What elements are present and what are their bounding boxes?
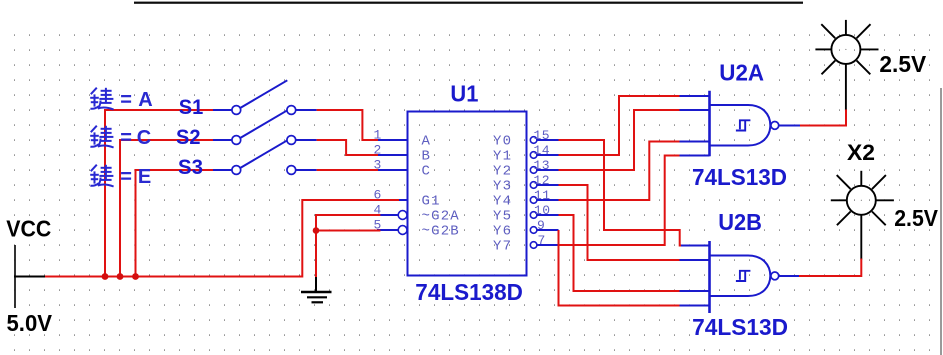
pin stub S1 left bbox=[213, 109, 232, 111]
wire S3 to U1 pin 3 bbox=[317, 169, 378, 171]
switch S1 bbox=[232, 80, 296, 114]
svg-text:C: C bbox=[422, 163, 432, 179]
svg-text:5.0V: 5.0V bbox=[7, 310, 53, 336]
pin stub U1 pin 7 Y7 bbox=[537, 244, 559, 246]
svg-text:S1: S1 bbox=[179, 96, 204, 119]
ground bbox=[301, 277, 332, 303]
wire Y3 to U2B input 2 bbox=[559, 185, 680, 260]
glyph jian (key) S3 label bbox=[90, 165, 113, 187]
pin stub U1 pin 11 Y4 bbox=[537, 199, 559, 201]
pin stub U2A input 1 bbox=[680, 95, 710, 97]
svg-text:S3: S3 bbox=[178, 156, 203, 179]
svg-text:Y2: Y2 bbox=[493, 163, 512, 179]
wire VCC bus to G1 bbox=[45, 200, 399, 277]
svg-text:9: 9 bbox=[537, 218, 545, 233]
svg-text:~G2B: ~G2B bbox=[422, 223, 460, 239]
pin stub U2B input 3 bbox=[680, 290, 710, 292]
svg-text:=: = bbox=[120, 89, 132, 111]
wire Y5 to U2B input 3 bbox=[559, 215, 680, 291]
wire U2B output to lamp X2 bbox=[799, 259, 861, 277]
wire VCC riser to S1 bbox=[105, 110, 213, 277]
glyph jian (key) S2 label bbox=[90, 126, 113, 148]
svg-text:74LS13D: 74LS13D bbox=[692, 314, 788, 340]
svg-text:3: 3 bbox=[374, 158, 382, 173]
wire Y1 to U2A input 1 bbox=[559, 96, 680, 155]
svg-text:~G2A: ~G2A bbox=[422, 208, 460, 224]
svg-text:12: 12 bbox=[534, 173, 550, 188]
pin stub U1 pin 15 Y0 bbox=[537, 139, 559, 141]
svg-text:Y0: Y0 bbox=[493, 133, 512, 149]
svg-text:5: 5 bbox=[374, 218, 382, 233]
wire U2A output to lamp X1 bbox=[800, 110, 846, 126]
wire Y0 to U2B input 1 bbox=[559, 140, 682, 246]
svg-text:X2: X2 bbox=[847, 140, 875, 165]
wire Y4 to U2A input 3 bbox=[559, 142, 680, 201]
svg-text:Y3: Y3 bbox=[493, 178, 512, 194]
svg-text:E: E bbox=[138, 166, 151, 188]
pin stub S1 right bbox=[296, 109, 317, 111]
pin stub U2B output bbox=[779, 275, 801, 277]
pin stub U2A input 4 bbox=[680, 155, 710, 157]
svg-text:10: 10 bbox=[534, 203, 550, 218]
bubble U1 pin 14 Y1 bbox=[530, 152, 537, 159]
svg-text:74LS13D: 74LS13D bbox=[692, 164, 787, 190]
svg-text:15: 15 bbox=[534, 128, 550, 143]
wire VCC riser to S2 bbox=[120, 140, 213, 277]
svg-text:U2B: U2B bbox=[718, 209, 762, 235]
pin stub U1 pin 10 Y5 bbox=[537, 214, 559, 216]
pin stub U1 pin 3 C bbox=[377, 169, 407, 171]
svg-text:Y5: Y5 bbox=[493, 208, 512, 224]
wire S2 to U1 pin 2 bbox=[317, 140, 378, 155]
pin stub U2A input 3 bbox=[680, 141, 710, 143]
wire Y2 to U2A input 2 bbox=[559, 110, 680, 170]
switch S2 bbox=[232, 110, 296, 144]
svg-text:Y6: Y6 bbox=[493, 223, 512, 239]
junction ground / G2A / G2B bbox=[313, 227, 320, 234]
svg-text:2: 2 bbox=[374, 143, 382, 158]
svg-text:Y7: Y7 bbox=[493, 238, 512, 254]
pin stub S3 left bbox=[213, 169, 232, 171]
wire Y7 to U2A input 4 bbox=[559, 156, 680, 246]
bubble U1 pin 10 Y5 bbox=[530, 212, 537, 219]
pin stub U1 pin 13 Y2 bbox=[537, 169, 559, 171]
pin stub U2B input 4 bbox=[680, 305, 710, 307]
svg-text:14: 14 bbox=[534, 143, 550, 158]
switch S3 bbox=[232, 140, 296, 174]
junction VCC bus / S3 riser bbox=[132, 273, 139, 280]
pin stub U1 pin 12 Y3 bbox=[537, 184, 559, 186]
bubble U1 pin 4 ~G2A bbox=[398, 211, 407, 220]
pin stub U1 pin 9 Y6 bbox=[537, 229, 559, 231]
wire junction to ~G2A bbox=[316, 215, 380, 231]
svg-text:2.5V: 2.5V bbox=[879, 51, 926, 77]
svg-text:S2: S2 bbox=[176, 126, 201, 149]
pin stub U1 pin 6 G1 bbox=[377, 199, 407, 201]
junction VCC bus / S1 riser bbox=[102, 273, 109, 280]
bubble U1 pin 11 Y4 bbox=[530, 197, 537, 204]
svg-text:Y4: Y4 bbox=[493, 193, 512, 209]
power source VCC 5.0V bbox=[14, 245, 45, 308]
glyph jian (key) S1 label bbox=[90, 88, 113, 110]
lamp X1 bbox=[815, 20, 878, 111]
bubble U1 pin 7 Y7 bbox=[530, 242, 537, 249]
NAND gate U2A 74LS13D bbox=[710, 91, 779, 157]
svg-text:6: 6 bbox=[374, 188, 382, 203]
svg-text:U2A: U2A bbox=[719, 59, 764, 85]
pin stub S2 left bbox=[213, 139, 232, 141]
pin stub U2A output bbox=[779, 125, 802, 127]
bubble U1 pin 12 Y3 bbox=[530, 182, 537, 189]
svg-text:U1: U1 bbox=[450, 81, 478, 107]
svg-text:4: 4 bbox=[374, 203, 382, 218]
svg-text:G1: G1 bbox=[422, 193, 441, 209]
pin stub U2B input 1 bbox=[680, 245, 710, 247]
svg-text:B: B bbox=[422, 148, 432, 164]
decoder U1 74LS138D body bbox=[398, 112, 537, 276]
bubble U1 pin 13 Y2 bbox=[530, 167, 537, 174]
svg-text:1: 1 bbox=[374, 128, 382, 143]
svg-text:VCC: VCC bbox=[6, 216, 51, 242]
pin stub U2A input 2 bbox=[680, 109, 710, 111]
svg-text:Y1: Y1 bbox=[493, 148, 512, 164]
svg-text:11: 11 bbox=[534, 188, 550, 203]
pin stub U1 pin 2 B bbox=[377, 154, 407, 156]
wire Y6 to U2B input 4 bbox=[559, 230, 680, 306]
pin stub U1 pin 1 A bbox=[377, 139, 407, 141]
pin stub S3 right bbox=[296, 169, 317, 171]
pin stub U2B input 2 bbox=[680, 259, 710, 261]
svg-text:A: A bbox=[422, 133, 432, 149]
svg-text:A: A bbox=[138, 89, 152, 111]
wire S1 to U1 pin 1 bbox=[317, 110, 378, 140]
bubble U1 pin 15 Y0 bbox=[530, 137, 537, 144]
pin stub U1 pin 14 Y1 bbox=[537, 154, 559, 156]
wire junction to ~G2B bbox=[316, 230, 380, 232]
svg-text:13: 13 bbox=[534, 158, 550, 173]
NAND gate U2B 74LS13D bbox=[710, 241, 779, 313]
svg-text:=: = bbox=[120, 166, 132, 188]
wire VCC riser to S3 bbox=[136, 170, 214, 277]
pin stub S2 right bbox=[296, 139, 317, 141]
bubble U1 pin 9 Y6 bbox=[530, 227, 537, 234]
svg-text:C: C bbox=[137, 127, 151, 149]
lamp X2 bbox=[831, 171, 894, 260]
bubble U1 pin 5 ~G2B bbox=[398, 226, 407, 235]
svg-text:7: 7 bbox=[538, 233, 546, 248]
svg-text:74LS138D: 74LS138D bbox=[415, 279, 523, 305]
pin stub U1 pin 5 ~G2B bbox=[377, 229, 398, 231]
svg-text:2.5V: 2.5V bbox=[894, 205, 938, 231]
junction VCC bus / S2 riser bbox=[117, 273, 124, 280]
svg-text:=: = bbox=[120, 127, 132, 149]
pin stub U1 pin 4 ~G2A bbox=[377, 214, 398, 216]
wire ground to G2 junction bbox=[315, 231, 317, 278]
